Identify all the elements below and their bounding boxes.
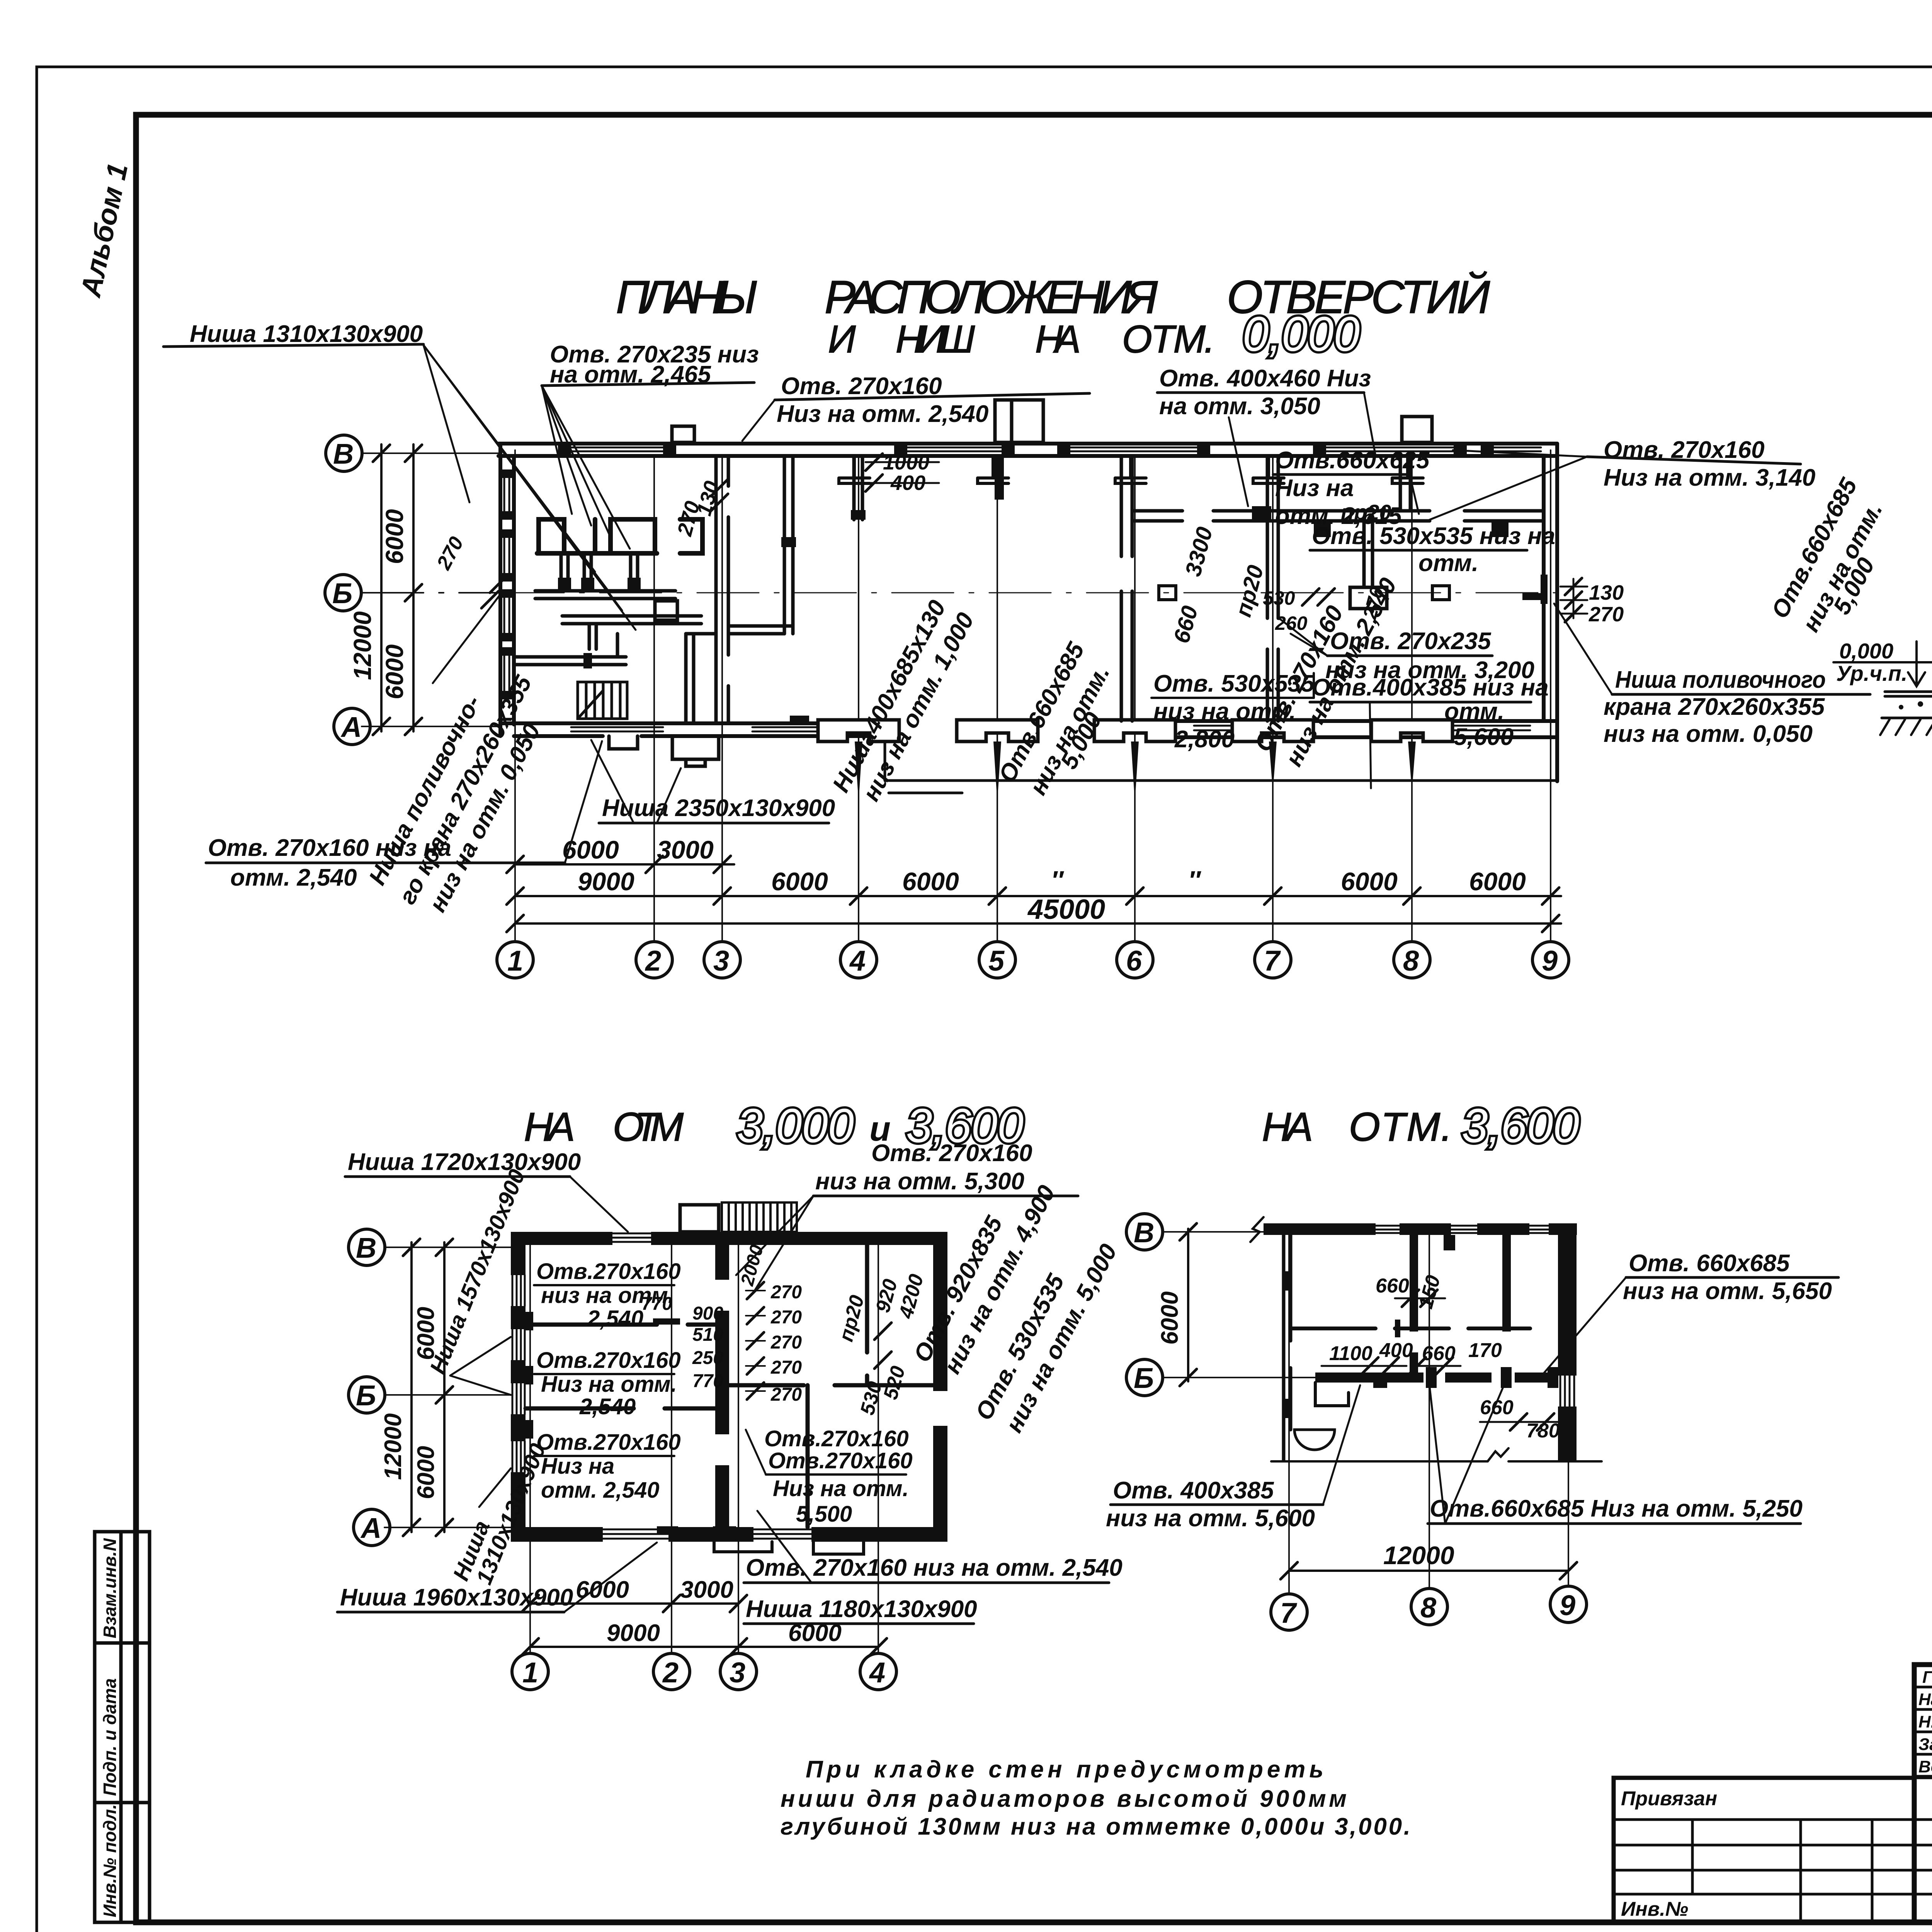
- svg-text:9000: 9000: [607, 1620, 660, 1646]
- svg-text:Привязан: Привязан: [1621, 1787, 1717, 1810]
- plan2 left wall: [511, 1232, 526, 1542]
- annotation: Отв. 270х160 Низ на отм. 3,140: [1604, 437, 1815, 491]
- svg-text:2: 2: [645, 945, 661, 977]
- svg-text:Отв. 660х685: Отв. 660х685: [1629, 1250, 1790, 1277]
- pilaster tees along top wall: [839, 458, 1423, 483]
- svg-text:Инв.№: Инв.№: [1621, 1898, 1688, 1920]
- plan2 annotation: Отв.270х160 низ на отм. 2,540 (1): [536, 1259, 681, 1331]
- elevation mark 0,000 Ур.ч.п.: [1836, 639, 1907, 685]
- grid circle A: [334, 708, 370, 745]
- partition in upper right room: [1400, 456, 1410, 511]
- wash trough block: [589, 601, 677, 649]
- svg-text:НИШ: НИШ: [896, 318, 980, 361]
- svg-text:6000: 6000: [576, 1577, 629, 1603]
- plan2 axis verticals: [530, 1236, 878, 1654]
- annotation: Отв. 400х460 Низ на отм. 3,050: [1159, 365, 1371, 420]
- speckle fill of floor slab: [1899, 701, 1932, 712]
- svg-text:Отв.400х385 низ на: Отв.400х385 низ на: [1312, 674, 1549, 701]
- svg-text:отм. 2,540: отм. 2,540: [230, 864, 357, 891]
- svg-text:130: 130: [1589, 581, 1624, 604]
- svg-text:НА: НА: [524, 1105, 580, 1150]
- plan3 partition horizontal: [1291, 1327, 1530, 1330]
- top wall: [498, 444, 1557, 456]
- svg-text:6000: 6000: [381, 645, 408, 699]
- plan3 break mark on top wall left: [1250, 1217, 1264, 1242]
- plan2 right wall: [933, 1232, 947, 1542]
- svg-text:Ур.ч.п.: Ур.ч.п.: [1836, 661, 1907, 685]
- svg-text:5,500: 5,500: [796, 1502, 852, 1527]
- axis lines horizontal: [362, 453, 1559, 726]
- annotation: Ниша 1310х130х900: [190, 321, 423, 347]
- plan2 grid circle Б: [349, 1377, 385, 1413]
- grid circle 6: [1117, 942, 1153, 978]
- plan2 annotation: Отв.270х160 низ на отм 2,540 (2): [536, 1348, 681, 1419]
- svg-text:6000: 6000: [381, 509, 408, 564]
- plan2 niche marks: [526, 1312, 533, 1439]
- svg-text:Ниша поливочного: Ниша поливочного: [1615, 667, 1826, 693]
- interior wall near axis 6: [1121, 456, 1132, 721]
- plan2 stair hatch: [722, 1202, 797, 1232]
- svg-text:5,600: 5,600: [1454, 724, 1514, 750]
- plan3 grid circle 9: [1550, 1586, 1587, 1622]
- plan3 interior wall at Б: [1315, 1372, 1558, 1383]
- svg-text:270: 270: [770, 1307, 802, 1328]
- ground hatch strokes below floor: [1880, 719, 1932, 735]
- svg-text:Низ на отм. 3,140: Низ на отм. 3,140: [1604, 464, 1815, 491]
- door jamb marks: [790, 457, 1544, 723]
- plan3 lower ledge line: [1315, 1383, 1349, 1406]
- grid circle 4: [840, 942, 877, 978]
- svg-text:1: 1: [522, 1656, 538, 1689]
- svg-text:В: В: [333, 438, 354, 470]
- svg-text:1100: 1100: [1329, 1342, 1372, 1365]
- svg-text:4: 4: [849, 945, 866, 977]
- svg-text:на отм. 3,050: на отм. 3,050: [1159, 393, 1320, 420]
- svg-text:пр20: пр20: [1341, 500, 1391, 524]
- svg-text:270: 270: [1588, 603, 1624, 626]
- svg-text:3: 3: [713, 945, 729, 977]
- wc stall partitions top row: [537, 519, 702, 553]
- svg-text:В: В: [356, 1232, 376, 1264]
- svg-text:Низ на отм.: Низ на отм.: [773, 1476, 909, 1501]
- svg-text:Ниша 1720х130х900: Ниша 1720х130х900: [348, 1149, 581, 1175]
- vestibule partition walls mid plan: [729, 457, 862, 634]
- leader fan from Ниша 1310: [423, 345, 636, 630]
- plan3 niche marks on left wall: [1284, 1271, 1291, 1418]
- svg-text:6000: 6000: [413, 1307, 439, 1360]
- svg-text:НА: НА: [1262, 1105, 1318, 1150]
- grid circle 1: [497, 942, 533, 978]
- grid circle 5: [979, 942, 1015, 978]
- wc stub walls with drains: [561, 553, 638, 590]
- svg-text:Нач.отд.: Нач.отд.: [1918, 1690, 1932, 1709]
- left margin cells strip: [95, 1532, 150, 1922]
- svg-text:В: В: [1134, 1216, 1154, 1248]
- svg-text:ОТМ.: ОТМ.: [1349, 1105, 1458, 1150]
- corridor wall horizontal: [535, 591, 701, 624]
- grid circle 3: [704, 942, 740, 978]
- plan2 grid circle А: [354, 1509, 390, 1546]
- svg-text:крана 270х260х355: крана 270х260х355: [1604, 694, 1825, 720]
- svg-text:Низ на отм. 2,540: Низ на отм. 2,540: [777, 401, 988, 427]
- plan3 sink arc: [1294, 1430, 1335, 1450]
- svg-text:270: 270: [770, 1357, 802, 1378]
- plan2 annotation: Отв. 270х160 низ на отм. 5,300: [815, 1140, 1032, 1195]
- svg-text:1: 1: [507, 945, 523, 977]
- svg-text:4: 4: [869, 1656, 885, 1689]
- svg-text:Зав.гр.: Зав.гр.: [1918, 1735, 1932, 1754]
- annotation: Отв. 530х535 низ на отм.: [1312, 523, 1555, 577]
- svg-text:170: 170: [1468, 1339, 1502, 1362]
- svg-text:Вед.инж.: Вед.инж.: [1918, 1757, 1932, 1776]
- svg-text:0,000: 0,000: [1243, 307, 1360, 361]
- plan3 grid circle 8: [1411, 1588, 1447, 1625]
- svg-text:″: ″: [1188, 866, 1201, 894]
- svg-text:3,600: 3,600: [1462, 1099, 1579, 1153]
- bottom wall of left section: [500, 723, 885, 736]
- svg-text:Отв. 270х235: Отв. 270х235: [1330, 628, 1492, 655]
- svg-text:3000: 3000: [657, 835, 714, 864]
- plan2 left dim lines: [412, 1242, 444, 1532]
- svg-text:А: А: [360, 1512, 381, 1544]
- svg-text:7: 7: [1264, 945, 1281, 977]
- plan3 title: [1262, 1105, 1458, 1150]
- plan3 partition vertical 1: [1410, 1235, 1418, 1372]
- svg-text:Б: Б: [356, 1379, 376, 1412]
- svg-text:отм. 2,540: отм. 2,540: [541, 1478, 660, 1503]
- svg-text:6000: 6000: [562, 835, 619, 864]
- svg-text:6000: 6000: [902, 867, 959, 896]
- plan3 bottom line with break: [1271, 1448, 1602, 1461]
- svg-text:9: 9: [1542, 945, 1558, 977]
- svg-text:6000: 6000: [788, 1620, 842, 1646]
- niche hatch marks on left wall: [499, 469, 515, 699]
- interior wall on axis 7: [1267, 456, 1278, 721]
- plan2 door black marks: [653, 1318, 736, 1534]
- grid circle 7: [1255, 942, 1291, 978]
- window hatches in left wall: [504, 477, 509, 692]
- svg-text:6000: 6000: [1156, 1291, 1183, 1345]
- plan2 roof bump: [680, 1205, 719, 1232]
- niche notch in right wall: [1542, 576, 1546, 603]
- right rooms bottom wall: [1175, 721, 1557, 737]
- svg-text:9000: 9000: [578, 867, 634, 896]
- svg-text:ПЛАНЫ: ПЛАНЫ: [616, 271, 763, 323]
- svg-text:0,000: 0,000: [1839, 639, 1893, 663]
- svg-text:6000: 6000: [771, 867, 828, 896]
- svg-text:РАСПОЛОЖЕНИЯ: РАСПОЛОЖЕНИЯ: [825, 271, 1163, 323]
- plan2 top wall: [511, 1232, 947, 1245]
- svg-text:низ на отм. 0,050: низ на отм. 0,050: [1604, 721, 1813, 747]
- plan3 partition vertical 2: [1502, 1235, 1511, 1332]
- plan3 bottom dim 12000: [1289, 1570, 1568, 1572]
- svg-text:9: 9: [1560, 1589, 1575, 1621]
- svg-text:12000: 12000: [349, 611, 376, 680]
- svg-text:Отв.660х625: Отв.660х625: [1275, 447, 1430, 474]
- svg-text:Б: Б: [1134, 1362, 1154, 1394]
- svg-text:Ниша 1960х130х900: Ниша 1960х130х900: [340, 1584, 573, 1611]
- pier stubs on cross wall: [1252, 506, 1509, 537]
- main title line 2: [828, 318, 1220, 361]
- svg-text:7: 7: [1280, 1597, 1298, 1629]
- axis lines vertical: [515, 450, 1551, 942]
- interior wall on axis 3: [716, 456, 728, 723]
- svg-text:ОТМ: ОТМ: [613, 1105, 689, 1150]
- plan2 bottom wall: [511, 1527, 947, 1542]
- svg-text:900: 900: [692, 1303, 723, 1324]
- plan2 grid circle 3: [720, 1653, 757, 1690]
- svg-text:8: 8: [1420, 1592, 1437, 1624]
- plan2 small dim chain column: [641, 1282, 802, 1405]
- plan2 annotation: Отв.270х160 низ на отм. 2,540 (3): [536, 1430, 681, 1503]
- plan2 grid circle В: [349, 1229, 385, 1265]
- svg-text:Низ на отм.: Низ на отм.: [541, 1372, 677, 1397]
- svg-text:Низ на: Низ на: [1275, 475, 1354, 502]
- flare ends of vestibule walls: [781, 510, 866, 547]
- svg-text:270: 270: [770, 1282, 802, 1303]
- svg-text:″: ″: [1051, 866, 1064, 894]
- annotation: Отв. 270х160 низ на отм. 2,540 (bottom-left): [208, 835, 451, 891]
- plan3 grid circle В: [1126, 1214, 1163, 1250]
- svg-text:3: 3: [730, 1656, 745, 1689]
- left wall: [500, 444, 514, 736]
- column footings along bottom: [818, 720, 1452, 742]
- svg-text:260: 260: [1275, 612, 1308, 634]
- svg-text:2,800: 2,800: [1174, 726, 1235, 753]
- lower corridor wall: [515, 634, 716, 723]
- svg-text:Отв.270х160: Отв.270х160: [536, 1348, 681, 1373]
- plan3 small window marks top interior: [1395, 1235, 1455, 1337]
- bottom dim row 3 (45000): [515, 922, 1561, 925]
- plan3 right wall: [1558, 1223, 1577, 1462]
- plan2 interior wall axis 3: [715, 1245, 729, 1527]
- svg-text:Отв. 400х385: Отв. 400х385: [1113, 1477, 1274, 1504]
- svg-text:Ниша 2350х130х900: Ниша 2350х130х900: [602, 795, 835, 821]
- svg-text:низ на отм.: низ на отм.: [541, 1283, 674, 1308]
- pier marks on Б axis: [1159, 586, 1449, 600]
- svg-text:3000: 3000: [680, 1577, 733, 1603]
- right exterior wall: [1544, 444, 1557, 781]
- grid circle B top: [326, 435, 362, 471]
- svg-text:ОТМ.: ОТМ.: [1122, 318, 1220, 361]
- svg-text:Взам.инв.N: Взам.инв.N: [100, 1538, 120, 1638]
- annotation: Ниша поливочного крана 270х260х355 низ на отм. 0,050 (right): [1604, 667, 1826, 747]
- svg-text:Отв. 530х535 низ на: Отв. 530х535 низ на: [1312, 523, 1555, 549]
- grid circle 9: [1532, 942, 1569, 978]
- svg-text:НА: НА: [1035, 318, 1086, 361]
- plan3 left dim: [1187, 1229, 1189, 1381]
- annotation: Отв. 530х535 низ на отм. 2,800: [1153, 670, 1315, 753]
- plan2 annotation: Отв.270х160 низ на отм. 5,500: [768, 1448, 913, 1527]
- svg-text:2,540: 2,540: [587, 1306, 643, 1331]
- svg-text:Ниша 1180х130х900: Ниша 1180х130х900: [746, 1596, 977, 1622]
- svg-text:8: 8: [1403, 945, 1419, 977]
- duct shaft at corridor: [583, 653, 592, 668]
- plan2 title: [524, 1105, 689, 1150]
- annotation: Отв.400х385 низ на отм. 5,600: [1312, 674, 1549, 750]
- grid circle 8: [1394, 942, 1430, 978]
- window jamb marks in top wall: [558, 442, 1494, 458]
- grid circle 2: [636, 942, 672, 978]
- svg-text:низ на отм. 5,600: низ на отм. 5,600: [1106, 1505, 1315, 1532]
- plan2 interior partitions: [526, 1245, 933, 1527]
- svg-text:6000: 6000: [413, 1446, 439, 1499]
- svg-text:3,000: 3,000: [737, 1099, 854, 1153]
- main title line 1: [616, 271, 1495, 323]
- canopy edge line: [885, 736, 1557, 793]
- svg-text:5: 5: [988, 945, 1005, 977]
- plan2 axis horizontals: [384, 1247, 512, 1527]
- annotation: Отв. 270х235 низ на отм. 3,200: [1325, 628, 1534, 684]
- svg-text:Отв. 270х160: Отв. 270х160: [871, 1140, 1032, 1167]
- bottom dim row 1 (6000 3000): [515, 863, 734, 866]
- svg-text:770: 770: [692, 1371, 723, 1391]
- svg-text:Отв.660х685 Низ на отм. 5,250: Отв.660х685 Низ на отм. 5,250: [1430, 1495, 1803, 1522]
- plan3 axis verticals: [1289, 1229, 1568, 1592]
- svg-text:270: 270: [770, 1332, 802, 1353]
- svg-text:2: 2: [662, 1656, 679, 1689]
- plan3 dims inside: [1329, 1275, 1560, 1442]
- svg-text:Отв.270х160: Отв.270х160: [768, 1448, 913, 1473]
- duct stub wall with footing: [1350, 521, 1387, 609]
- left dimension lines of main plan: [381, 444, 413, 731]
- svg-text:250: 250: [692, 1348, 723, 1368]
- interior cross wall y1335: [1132, 511, 1544, 521]
- svg-text:Отв.270х160: Отв.270х160: [536, 1259, 681, 1284]
- stair flight with hatch: [578, 682, 627, 719]
- svg-text:отм.: отм.: [1418, 550, 1478, 577]
- plan2 grid circle 2: [653, 1653, 690, 1690]
- svg-text:Отв.270х160: Отв.270х160: [536, 1430, 681, 1455]
- svg-text:510: 510: [692, 1325, 723, 1345]
- footing taper ticks: [855, 742, 1416, 791]
- plan3 top wall: [1264, 1223, 1577, 1235]
- plan3 annotation: Отв. 400х385 низ на отм. 5,600: [1106, 1477, 1315, 1532]
- bottom dim row 2: [515, 895, 1561, 897]
- svg-text:Отв. 400х460 Низ: Отв. 400х460 Низ: [1159, 365, 1371, 392]
- entrance porch below wall: [609, 736, 719, 766]
- plan2 grid circle 1: [512, 1653, 548, 1690]
- svg-text:12000: 12000: [1383, 1541, 1454, 1570]
- plan2 bottom dims: [530, 1602, 738, 1605]
- svg-text:А: А: [340, 711, 362, 743]
- svg-text:Отв. 270х160 низ на отм. 2,540: Отв. 270х160 низ на отм. 2,540: [746, 1554, 1122, 1581]
- annotation: Отв. 270х160 низ на отм. 2,540 (top): [777, 373, 988, 427]
- svg-text:530: 530: [1263, 587, 1295, 609]
- annotation: Отв. 270х235 низ на отм. 2,465: [550, 341, 759, 388]
- annotation: Отв.660х625 Низ на отм. 2,615: [1275, 447, 1430, 529]
- svg-text:Н.контр.: Н.контр.: [1918, 1713, 1932, 1731]
- svg-text:6: 6: [1126, 945, 1142, 977]
- svg-text:12000: 12000: [380, 1413, 406, 1480]
- signatures table frame: [1914, 1665, 1932, 1922]
- plan3 grid circle Б: [1126, 1359, 1163, 1396]
- svg-text:2,540: 2,540: [579, 1394, 636, 1419]
- svg-text:45000: 45000: [1027, 894, 1105, 925]
- plan3 axis horizontals: [1162, 1232, 1318, 1378]
- svg-text:Б: Б: [332, 577, 352, 609]
- floor slab left of wall: [1882, 692, 1932, 718]
- chimney stack above top wall: [672, 400, 1432, 442]
- plan3 pier marks on Б wall: [1373, 1367, 1558, 1388]
- note paragraph: [781, 1756, 1410, 1840]
- svg-text:660: 660: [1376, 1275, 1409, 1297]
- svg-text:И: И: [828, 318, 861, 361]
- plan2 porch marks below bottom wall: [714, 1542, 864, 1554]
- plan2 grid circle 4: [860, 1653, 896, 1690]
- signature labels: [1918, 1668, 1932, 1776]
- svg-text:Отв. 270х160: Отв. 270х160: [781, 373, 942, 400]
- plan3 left wall thin: [1284, 1235, 1291, 1461]
- svg-text:Отв.270х160: Отв.270х160: [764, 1426, 909, 1451]
- window hatches in top wall: [571, 447, 1541, 451]
- svg-text:6000: 6000: [1341, 867, 1398, 896]
- svg-text:Отв. 270х160 низ на: Отв. 270х160 низ на: [208, 835, 451, 861]
- svg-text:Инв.№ подл.: Инв.№ подл.: [100, 1804, 120, 1917]
- plan3 grid circle 7: [1271, 1594, 1307, 1630]
- svg-text:низ на отм. 5,300: низ на отм. 5,300: [815, 1168, 1024, 1195]
- grid circle Б: [325, 575, 361, 611]
- svg-text:низ на отм. 5,650: низ на отм. 5,650: [1623, 1278, 1832, 1304]
- svg-text:Низ на: Низ на: [541, 1454, 614, 1479]
- privyazan table: [1614, 1778, 1914, 1922]
- svg-text:270: 270: [770, 1384, 802, 1405]
- svg-text:6000: 6000: [1469, 867, 1526, 896]
- svg-text:ГИП: ГИП: [1922, 1668, 1932, 1687]
- svg-text:Подп. и дата: Подп. и дата: [100, 1678, 120, 1796]
- plan3 annotation: Отв. 660х685 низ на отм. 5,650: [1623, 1250, 1832, 1304]
